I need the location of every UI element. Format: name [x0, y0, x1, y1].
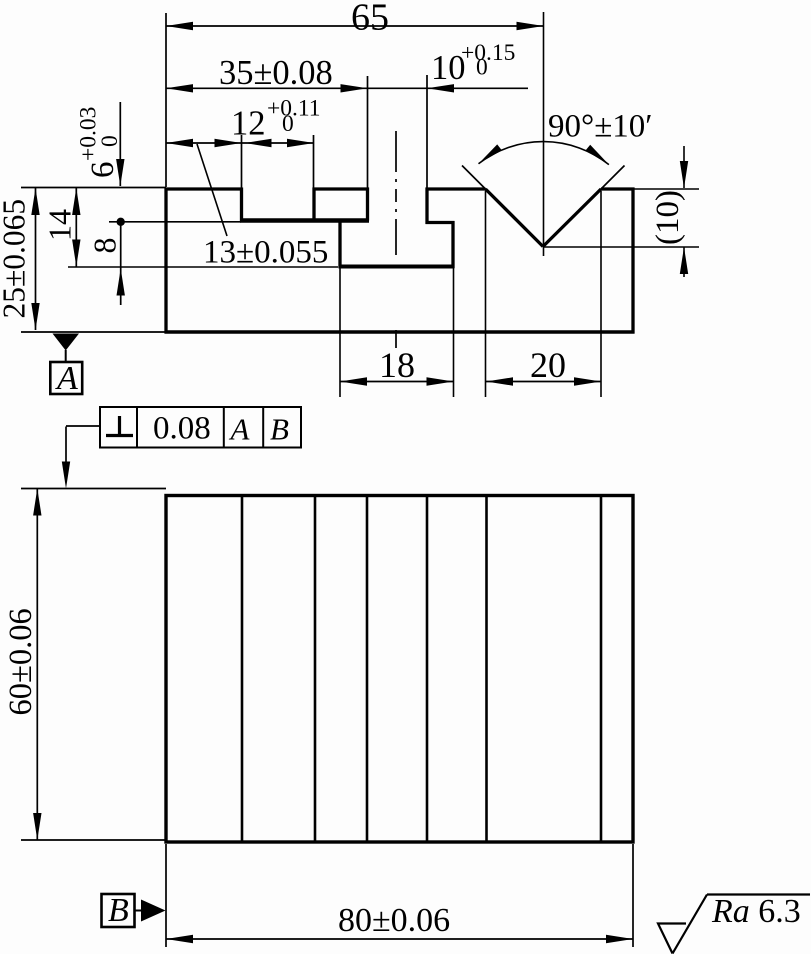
plan line x315: [314, 496, 317, 843]
extension line: top surface extended right: [633, 188, 699, 190]
arrowhead 18 right: [427, 377, 454, 385]
arrowhead 60 bottom: [33, 813, 41, 840]
tab left edge: [312, 188, 315, 221]
extension line: V apex level extended right: [543, 246, 699, 248]
frame leader vertical: [65, 427, 67, 467]
part outline: top surface left segment: [165, 187, 243, 190]
svg-text:60±0.06: 60±0.06: [3, 608, 39, 715]
frame divider 2: [223, 407, 225, 448]
extension line: bottom extended left: [21, 331, 166, 333]
dimension line 6: [119, 102, 121, 186]
extension line: slot left corner extended up: [241, 135, 243, 188]
perpendicularity symbol: [118, 416, 121, 436]
part outline: left edge: [164, 188, 167, 334]
dimension line 25: [35, 188, 37, 330]
extension line: slot bottom level through dot: [109, 221, 241, 223]
plan line x242: [241, 496, 244, 843]
arrowhead 18 left: [340, 377, 367, 385]
svg-text:+0.03: +0.03: [76, 107, 102, 161]
arrowhead 10 left: [427, 84, 454, 92]
extension line: 20 right through part: [600, 191, 602, 397]
top surface between notch and V-groove: [426, 187, 486, 190]
frame divider 1: [136, 407, 138, 448]
V-groove right arm thin extension: [600, 166, 625, 191]
extension line: notch wall extended up: [426, 75, 428, 188]
arrowhead 12 right: [287, 139, 314, 147]
V-groove left arm thin extension: [462, 166, 487, 191]
leader line for 13: [197, 144, 227, 236]
dimension line 65: [166, 25, 544, 27]
dimension line (10) lower: [683, 247, 685, 277]
svg-text:A: A: [55, 360, 78, 397]
extension line: plan bottom extended left: [21, 839, 166, 841]
dimension line 60: [36, 489, 38, 841]
part outline: right edge: [631, 188, 634, 334]
extension line: 80 right: [632, 844, 634, 947]
svg-text:13±0.055: 13±0.055: [203, 235, 328, 271]
svg-text:Ra 6.3: Ra 6.3: [711, 893, 801, 930]
svg-text:+0.15: +0.15: [461, 40, 515, 66]
svg-text:18: 18: [379, 345, 415, 385]
svg-text:0.08: 0.08: [153, 411, 211, 447]
arrowhead 80 left: [166, 935, 193, 943]
extension line: 18 left below part: [339, 268, 341, 397]
dimension line 18: [340, 381, 454, 383]
svg-text:80±0.06: 80±0.06: [338, 902, 450, 939]
arrowhead 20 left: [486, 377, 513, 385]
svg-text:6: 6: [85, 162, 121, 179]
centerline lower tick crossing bottom edge: [395, 330, 397, 348]
arrowhead 13 right: [215, 139, 242, 147]
V-groove centerline / 65 extension line: [543, 12, 545, 256]
extension line: top surface extended left: [21, 187, 166, 189]
extension line: slot right corner extended up: [313, 135, 315, 188]
V-groove left arm: [486, 189, 544, 247]
datum B connector: [135, 910, 143, 912]
extension line: 20 left through part: [485, 191, 487, 397]
arrowhead 13 left: [166, 139, 193, 147]
svg-text:(10): (10): [650, 190, 686, 245]
svg-text:90°±10′: 90°±10′: [548, 109, 653, 145]
middle slot right wall: [451, 221, 454, 268]
dimension line (10) upper: [683, 146, 685, 188]
dimension line 80: [166, 938, 633, 940]
frame leader horizontal: [66, 425, 100, 427]
datum A stem: [65, 350, 67, 362]
svg-text:B: B: [270, 412, 289, 447]
dimension line 8 with origin dot: [120, 222, 122, 305]
svg-text:20: 20: [530, 345, 566, 385]
plan line x367: [366, 496, 369, 843]
svg-text:0: 0: [282, 111, 294, 137]
svg-text:25±0.065: 25±0.065: [0, 199, 32, 319]
svg-text:12: 12: [231, 105, 266, 143]
extension line: plan top extended left: [21, 488, 166, 490]
roughness symbol bar: [707, 893, 810, 895]
dimension line 14: [75, 188, 77, 267]
svg-text:0: 0: [97, 135, 123, 147]
svg-text:65: 65: [351, 0, 389, 39]
extension line: left edge extended up: [165, 13, 167, 187]
part outline: bottom edge: [165, 330, 635, 334]
extension line: middle slot bottom level extended left: [68, 266, 338, 268]
T-slot left wall: [240, 188, 243, 223]
arrowhead (10) down: [680, 161, 688, 188]
arrowhead 35 right: [341, 84, 368, 92]
svg-text:14: 14: [42, 209, 78, 241]
T-slot bottom thick band: [240, 218, 369, 223]
tab right edge: [366, 188, 369, 221]
notch wall at x427: [425, 188, 428, 225]
roughness symbol triangle: [658, 924, 686, 954]
plan view outline: [166, 496, 633, 843]
svg-text:+0.11: +0.11: [267, 96, 321, 122]
middle slot left wall: [338, 219, 341, 268]
middle slot bottom: [339, 265, 455, 269]
arrowhead 12 left facing: [245, 139, 272, 147]
datum A box: [50, 362, 82, 394]
roughness symbol long leg: [673, 895, 708, 954]
extension line: 80 left: [165, 844, 167, 947]
plan line x601: [600, 496, 603, 843]
arrowhead 14 top: [72, 188, 80, 215]
frame divider 3: [262, 407, 264, 448]
svg-text:A: A: [229, 412, 251, 447]
part outline: top surface right of V-groove: [601, 187, 635, 190]
arrowhead 20 right: [574, 377, 601, 385]
arrowhead 65 right: [517, 22, 544, 30]
frame outer box: [100, 407, 301, 448]
arrowhead 6 down: [116, 159, 124, 186]
svg-text:0: 0: [476, 55, 488, 81]
arc dimension 90: [479, 142, 609, 165]
arrowhead frame leader down: [62, 462, 70, 489]
arrowhead 14 bottom: [72, 240, 80, 267]
dimension line 13 / 12 shared: [166, 142, 314, 144]
arrowhead 25 bottom: [31, 303, 39, 330]
datum B box: [102, 894, 135, 927]
tab top surface: [313, 187, 370, 190]
arrowhead 35 left: [166, 84, 193, 92]
datum B triangle: [141, 900, 166, 922]
plan line x486: [485, 496, 488, 843]
svg-text:8: 8: [87, 238, 123, 254]
arrowhead 65 left: [166, 22, 193, 30]
arrowhead 60 top: [33, 489, 41, 516]
svg-text:B: B: [108, 892, 129, 929]
origin dot of 8 dimension: [117, 218, 125, 226]
svg-text:35±0.08: 35±0.08: [219, 54, 333, 92]
V-groove right arm: [543, 189, 601, 247]
extension line: tab right edge extended up: [367, 76, 369, 188]
extension line: 18 right below part: [453, 268, 455, 397]
notch bottom: [426, 221, 455, 224]
datum A triangle: [53, 334, 80, 351]
arrowhead (10) up: [680, 247, 688, 274]
dimension line 20: [486, 381, 601, 383]
arrowhead 25 top: [31, 188, 39, 215]
centerline of middle slot (dash-dot): [395, 131, 397, 283]
dimension line 35 / 10 shared: [166, 87, 528, 89]
arrowhead 80 right: [606, 935, 633, 943]
arrowhead arc left: [479, 144, 502, 163]
arrowhead arc right: [586, 145, 609, 165]
arrowhead 8 up from below: [117, 269, 125, 296]
plan line x427: [426, 496, 429, 843]
